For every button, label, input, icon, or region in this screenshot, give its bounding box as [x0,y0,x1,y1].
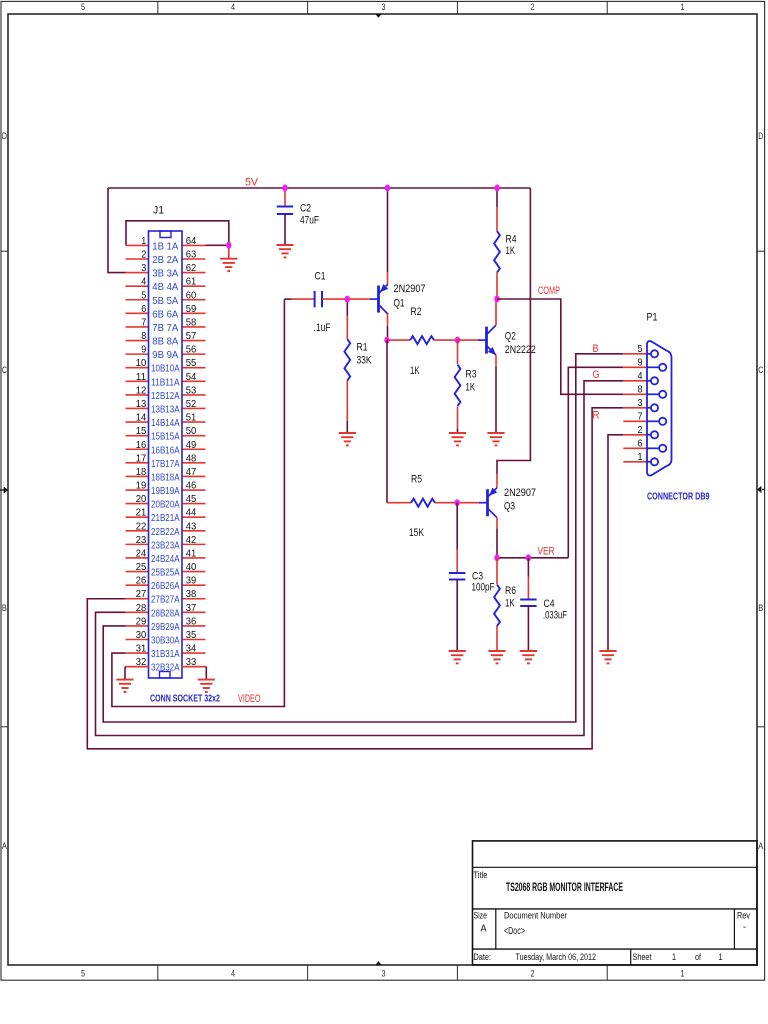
svg-text:36: 36 [186,615,197,627]
svg-text:11B11A: 11B11A [151,376,180,388]
svg-text:14B14A: 14B14A [151,417,180,429]
svg-text:R6: R6 [505,585,516,597]
svg-text:Title: Title [474,870,488,880]
svg-text:.1uF: .1uF [314,322,331,334]
svg-text:Q2: Q2 [505,331,516,343]
svg-text:50: 50 [186,425,197,437]
svg-text:29B29A: 29B29A [151,621,180,633]
svg-text:D: D [758,131,763,141]
svg-text:51: 51 [186,412,197,424]
svg-text:6B 6A: 6B 6A [152,308,178,320]
svg-text:39: 39 [186,575,197,587]
svg-text:27: 27 [136,588,147,600]
svg-text:7B 7A: 7B 7A [152,322,178,334]
svg-text:C1: C1 [315,271,326,283]
svg-text:23: 23 [136,534,147,546]
svg-text:2N2907: 2N2907 [394,283,426,295]
svg-text:1K: 1K [410,365,420,377]
svg-text:B: B [2,603,7,613]
svg-text:1: 1 [681,2,685,12]
svg-text:1K: 1K [466,382,476,394]
svg-text:13B13A: 13B13A [151,403,180,415]
svg-text:17B17A: 17B17A [151,458,180,470]
svg-text:31: 31 [136,643,147,655]
svg-text:4: 4 [141,276,146,288]
svg-text:47: 47 [186,466,197,478]
svg-text:5: 5 [141,289,146,301]
svg-text:21: 21 [136,507,147,519]
svg-text:44: 44 [186,507,197,519]
svg-text:1: 1 [719,952,723,963]
svg-text:47uF: 47uF [300,215,319,227]
svg-text:Q3: Q3 [504,501,515,513]
svg-text:61: 61 [186,276,197,288]
svg-text:37: 37 [186,602,197,614]
svg-text:1B 1A: 1B 1A [152,240,178,252]
svg-text:21B21A: 21B21A [151,512,180,524]
svg-text:VER: VER [538,546,555,558]
svg-text:2: 2 [531,968,535,978]
svg-text:15K: 15K [409,527,425,539]
svg-text:.033uF: .033uF [543,610,567,622]
svg-text:28: 28 [136,602,147,614]
svg-text:26: 26 [136,575,147,587]
svg-text:3: 3 [638,397,643,409]
svg-text:2: 2 [638,424,643,436]
svg-text:45: 45 [186,493,197,505]
svg-text:5V: 5V [245,177,259,189]
svg-text:31B31A: 31B31A [151,648,180,660]
svg-text:15: 15 [136,425,147,437]
svg-text:4: 4 [638,370,643,382]
svg-text:C: C [2,365,7,375]
svg-text:A: A [481,924,487,935]
svg-text:-: - [743,922,746,933]
svg-text:19B19A: 19B19A [151,485,180,497]
svg-text:26B26A: 26B26A [151,580,180,592]
svg-text:D: D [2,131,7,141]
svg-text:Q1: Q1 [394,298,405,310]
svg-text:6: 6 [638,437,643,449]
svg-text:43: 43 [186,520,197,532]
svg-text:R3: R3 [466,369,477,381]
svg-text:A: A [2,841,7,851]
svg-text:7: 7 [638,410,643,422]
svg-text:30: 30 [136,629,147,641]
svg-text:10: 10 [136,357,147,369]
svg-text:Tuesday, March 06, 2012: Tuesday, March 06, 2012 [516,952,597,963]
svg-text:100pF: 100pF [472,582,495,594]
svg-text:34: 34 [186,643,197,655]
svg-text:20B20A: 20B20A [151,499,180,511]
svg-text:R2: R2 [411,306,422,318]
svg-text:28B28A: 28B28A [151,607,180,619]
svg-text:49: 49 [186,439,197,451]
svg-text:1: 1 [672,952,676,963]
svg-text:10B10A: 10B10A [151,363,180,375]
svg-text:5: 5 [81,2,85,12]
svg-text:CONN SOCKET 32x2: CONN SOCKET 32x2 [150,693,220,705]
svg-text:5B 5A: 5B 5A [152,295,178,307]
svg-text:1: 1 [141,235,146,247]
svg-text:2B 2A: 2B 2A [152,254,178,266]
svg-text:41: 41 [186,547,197,559]
svg-text:42: 42 [186,534,197,546]
svg-text:12: 12 [136,384,147,396]
svg-text:40: 40 [186,561,197,573]
svg-text:22: 22 [136,520,147,532]
svg-text:64: 64 [186,235,197,247]
svg-text:20: 20 [136,493,147,505]
svg-text:30B30A: 30B30A [151,635,180,647]
svg-text:4: 4 [231,2,235,12]
svg-text:24: 24 [136,547,147,559]
svg-text:52: 52 [186,398,197,410]
svg-text:2: 2 [531,2,535,12]
svg-text:C2: C2 [300,203,311,215]
svg-text:18: 18 [136,466,147,478]
svg-text:R: R [593,410,600,422]
svg-text:1K: 1K [505,598,515,610]
svg-text:R5: R5 [411,474,422,486]
svg-text:55: 55 [186,357,197,369]
svg-text:Date:: Date: [474,952,492,963]
svg-text:57: 57 [186,330,197,342]
svg-text:53: 53 [186,384,197,396]
svg-text:9: 9 [141,344,146,356]
svg-text:TS2068 RGB MONITOR INTERFACE: TS2068 RGB MONITOR INTERFACE [506,880,623,894]
svg-text:24B24A: 24B24A [151,553,180,565]
svg-text:A: A [758,841,763,851]
svg-text:12B12A: 12B12A [151,390,180,402]
svg-text:COMP: COMP [538,285,560,297]
svg-text:Size: Size [474,911,488,921]
svg-text:4: 4 [231,968,235,978]
svg-text:16: 16 [136,439,147,451]
svg-text:29: 29 [136,615,147,627]
svg-text:CONNECTOR DB9: CONNECTOR DB9 [647,491,710,503]
svg-text:J1: J1 [153,205,164,217]
svg-text:23B23A: 23B23A [151,539,180,551]
svg-text:C: C [758,365,763,375]
svg-text:4B 4A: 4B 4A [152,281,178,293]
svg-text:17: 17 [136,452,147,464]
svg-text:R4: R4 [506,234,517,246]
svg-text:38: 38 [186,588,197,600]
svg-text:2N2907: 2N2907 [504,487,536,499]
svg-text:25B25A: 25B25A [151,567,180,579]
svg-text:3: 3 [382,968,386,978]
svg-text:1: 1 [681,968,685,978]
svg-text:1K: 1K [506,245,516,257]
svg-text:1: 1 [638,451,643,463]
svg-text:35: 35 [186,629,197,641]
svg-text:Sheet: Sheet [633,952,652,963]
svg-text:5: 5 [638,343,643,355]
svg-text:60: 60 [186,289,197,301]
svg-text:of: of [695,952,701,963]
svg-text:<Doc>: <Doc> [504,926,525,937]
svg-text:19: 19 [136,480,147,492]
svg-text:59: 59 [186,303,197,315]
svg-text:48: 48 [186,452,197,464]
svg-text:46: 46 [186,480,197,492]
svg-text:B: B [593,343,599,355]
svg-text:13: 13 [136,398,147,410]
svg-text:3: 3 [141,262,146,274]
svg-text:Document Number: Document Number [504,911,567,921]
svg-text:7: 7 [141,316,146,328]
svg-text:16B16A: 16B16A [151,444,180,456]
svg-text:5: 5 [81,968,85,978]
svg-text:14: 14 [136,412,147,424]
svg-text:25: 25 [136,561,147,573]
svg-text:56: 56 [186,344,197,356]
svg-text:9B 9A: 9B 9A [152,349,178,361]
svg-text:3: 3 [382,2,386,12]
svg-text:32B32A: 32B32A [151,662,180,674]
svg-text:62: 62 [186,262,197,274]
svg-text:8B 8A: 8B 8A [152,336,178,348]
svg-text:63: 63 [186,248,197,260]
svg-text:6: 6 [141,303,146,315]
svg-text:2: 2 [141,248,146,260]
svg-text:58: 58 [186,316,197,328]
svg-text:8: 8 [638,383,643,395]
svg-text:11: 11 [136,371,147,383]
svg-text:C4: C4 [544,598,555,610]
svg-text:18B18A: 18B18A [151,471,180,483]
svg-text:P1: P1 [647,312,658,324]
svg-text:8: 8 [141,330,146,342]
svg-text:22B22A: 22B22A [151,526,180,538]
svg-text:15B15A: 15B15A [151,431,180,443]
svg-text:B: B [758,603,763,613]
svg-text:54: 54 [186,371,197,383]
svg-text:33K: 33K [357,355,373,367]
svg-text:VIDEO: VIDEO [238,693,261,705]
svg-text:R1: R1 [357,342,368,354]
svg-text:27B27A: 27B27A [151,594,180,606]
svg-text:G: G [593,369,600,381]
svg-text:3B 3A: 3B 3A [152,268,178,280]
svg-text:9: 9 [638,356,643,368]
svg-text:Rev: Rev [737,911,750,921]
